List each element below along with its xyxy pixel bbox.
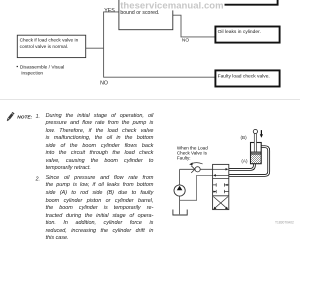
svg-text:Oil leaks in cylinder.: Oil leaks in cylinder. xyxy=(218,29,261,35)
svg-text:bound or scored.: bound or scored. xyxy=(120,10,159,16)
svg-text:YES: YES xyxy=(104,8,115,14)
svg-text:NO: NO xyxy=(100,80,108,86)
svg-text:Disassemble / Visual: Disassemble / Visual xyxy=(20,64,64,70)
svg-text:T183070A02: T183070A02 xyxy=(275,221,294,225)
svg-text:(A): (A) xyxy=(241,158,248,163)
svg-text:1.: 1. xyxy=(36,114,40,120)
svg-text:Inspection: Inspection xyxy=(21,70,43,76)
svg-text:NOTE:: NOTE: xyxy=(17,114,32,120)
svg-text:Faulty:: Faulty: xyxy=(177,156,191,161)
svg-text:Faulty load check valve.: Faulty load check valve. xyxy=(218,74,270,80)
svg-text:control valve is normal.: control valve is normal. xyxy=(20,44,69,50)
svg-text:2.: 2. xyxy=(35,176,40,182)
svg-text:(B): (B) xyxy=(241,135,248,140)
svg-text:NO: NO xyxy=(182,38,189,44)
svg-text:Check if load check valve in: Check if load check valve in xyxy=(20,38,79,44)
